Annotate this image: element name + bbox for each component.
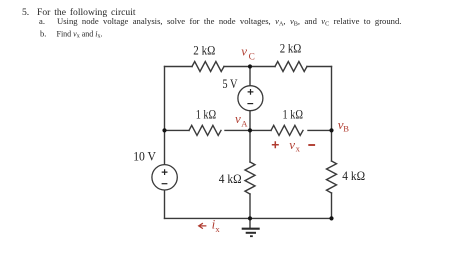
svg-text:A: A bbox=[241, 118, 248, 128]
svg-text:Find vx and ix.: Find vx and ix. bbox=[57, 29, 103, 39]
svg-text:4 kΩ: 4 kΩ bbox=[219, 171, 242, 186]
svg-text:x: x bbox=[215, 224, 220, 234]
svg-text:1 kΩ: 1 kΩ bbox=[283, 107, 304, 122]
svg-text:a.: a. bbox=[39, 16, 45, 26]
svg-text:B: B bbox=[343, 124, 349, 134]
svg-text:x: x bbox=[296, 143, 301, 153]
svg-text:Using node voltage analysis, s: Using node voltage analysis, solve for t… bbox=[57, 16, 401, 27]
svg-text:v: v bbox=[241, 43, 247, 58]
svg-text:2 kΩ: 2 kΩ bbox=[193, 43, 215, 58]
svg-text:2 kΩ: 2 kΩ bbox=[280, 40, 302, 55]
svg-text:v: v bbox=[235, 111, 241, 126]
svg-text:C: C bbox=[249, 52, 255, 62]
svg-text:5.: 5. bbox=[22, 7, 29, 18]
svg-text:4 kΩ: 4 kΩ bbox=[342, 168, 365, 183]
svg-text:v: v bbox=[289, 137, 295, 152]
svg-text:1 kΩ: 1 kΩ bbox=[196, 107, 217, 122]
svg-text:5 V: 5 V bbox=[222, 76, 238, 91]
svg-text:10 V: 10 V bbox=[133, 149, 156, 164]
svg-text:b.: b. bbox=[40, 28, 46, 38]
